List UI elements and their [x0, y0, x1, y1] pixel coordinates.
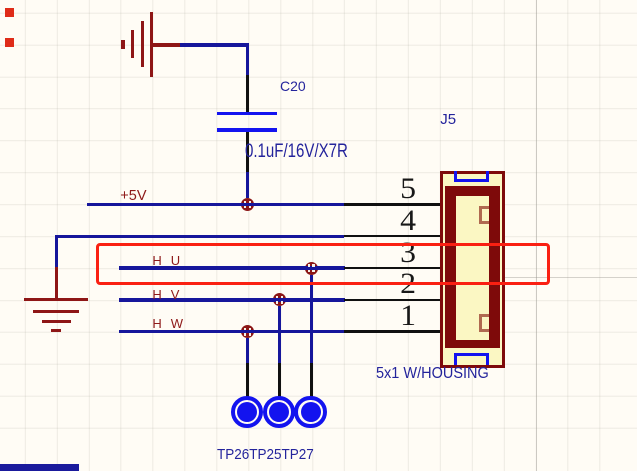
wire H_W down to TP26: [246, 338, 249, 363]
power ground symbol top (bar 4 smallest): [121, 40, 124, 50]
pin 4 black lead: [344, 235, 441, 238]
test point TP26 pad ring: [231, 396, 263, 428]
junction marker on +5V net: [241, 198, 254, 211]
marker red square 1 (top-left): [5, 8, 14, 17]
connector key notch bottom (tan): [479, 314, 489, 333]
test point TP27 pad ring: [294, 396, 326, 428]
test point TP25 pin lead: [278, 363, 281, 398]
test point TP27 pin lead: [310, 363, 313, 398]
value label 0.1uF/16V/X7R: [245, 142, 348, 162]
ground symbol bottom bar 3: [42, 320, 71, 323]
wire from capacitor to +5V net: [246, 172, 249, 198]
zone divider horizontal line (right): [503, 277, 637, 278]
wire H_V down to TP25: [278, 306, 281, 363]
pin number 1: [400, 301, 416, 331]
pin 4 wire corner down: [55, 235, 58, 268]
test point TP26 pin lead: [246, 363, 249, 398]
junction marker on H_U: [305, 262, 318, 275]
pin 3 black lead: [344, 267, 441, 270]
pin 4 net wire (horizontal): [55, 235, 345, 238]
connector J5 outer body: [440, 171, 505, 368]
label C20: [280, 79, 306, 93]
H_V net wire: [119, 298, 345, 301]
ground symbol bottom lead: [55, 267, 58, 299]
connector polarity mark top (blue U): [454, 171, 489, 182]
power ground symbol top (bar 3): [131, 30, 134, 58]
test point TP25 pad center: [269, 402, 289, 422]
label J5: [440, 112, 456, 127]
capacitor C20 bottom plate: [217, 128, 277, 132]
H_V wire over junction: [272, 298, 287, 301]
frame right band over notches: [490, 197, 501, 341]
label H U: [152, 254, 161, 267]
H_U net wire: [119, 266, 345, 269]
H_W net wire: [119, 330, 345, 333]
power ground symbol top (bar 1 tallest): [150, 12, 153, 77]
label +5V: [120, 189, 146, 204]
ground symbol bottom bar 4 (smallest): [51, 329, 61, 332]
capacitor C20 top plate: [217, 112, 277, 116]
pin 2 black lead: [344, 299, 441, 302]
+5V net wire: [87, 203, 345, 206]
junction marker on H_W: [241, 325, 254, 338]
wire from ground to capacitor (horizontal): [180, 43, 249, 46]
power ground symbol top (bar 2): [141, 21, 144, 67]
wire H_U down to TP27: [310, 275, 313, 363]
junction white dot left: [244, 201, 246, 203]
pin number 4: [400, 206, 416, 236]
test point TP26 pad center: [237, 402, 257, 422]
pin number 5: [400, 174, 416, 204]
test point TP27 pad center: [301, 402, 321, 422]
connector polarity mark bottom (blue U): [454, 353, 489, 366]
label H W: [152, 317, 161, 330]
label 5x1 W/HOUSING: [376, 366, 489, 382]
connector key notch top (tan): [479, 206, 489, 225]
capacitor C20 bottom pin lead: [246, 132, 249, 173]
pin number 3: [400, 238, 416, 268]
pin 1 black lead: [344, 330, 441, 333]
H_U wire over junction: [304, 266, 319, 269]
marker blue bar (bottom-left): [0, 464, 79, 471]
pin number 2: [400, 269, 416, 299]
power ground symbol top lead: [152, 43, 183, 46]
label H V: [152, 288, 161, 301]
H_W wire over junction: [240, 330, 255, 333]
ground symbol bottom bar 1 (widest): [24, 298, 88, 301]
grid major vertical line: [536, 0, 537, 471]
test point TP25 pad ring: [263, 396, 295, 428]
junction marker on H_V: [273, 293, 286, 306]
labels TP26 TP25 TP27: [217, 447, 314, 462]
marker red square 2 (top-left): [5, 38, 14, 47]
connector J5 inner frame: [445, 186, 500, 348]
wire corner down to capacitor: [246, 43, 249, 76]
capacitor C20 top pin lead: [246, 75, 249, 112]
pin 5 black lead: [344, 203, 441, 206]
ground symbol bottom bar 2: [33, 310, 79, 313]
highlight rectangle (selection): [96, 243, 550, 284]
